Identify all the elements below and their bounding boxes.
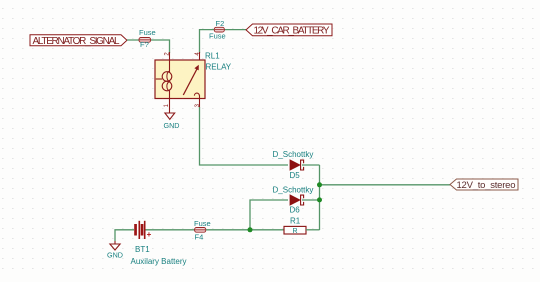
svg-text:D_Schottky: D_Schottky [273,185,314,194]
svg-text:D_Schottky: D_Schottky [273,150,314,159]
svg-text:F4: F4 [195,232,204,241]
wire alternator signal to fuse F? [127,40,170,53]
relay pin number 3 [195,103,201,107]
wire D5 cathode to output bus [302,164,320,166]
junction at output bus / D6 cathode [317,197,322,202]
svg-text:RELAY: RELAY [206,63,232,72]
wire ground to battery [115,230,134,241]
wire relay pin3 to D5 anode [200,107,289,165]
svg-text:Fuse: Fuse [209,32,226,41]
svg-text:GND: GND [107,251,123,260]
relay pin number 1 [164,103,170,107]
wire output bus vertical [319,165,321,230]
battery BT1 [131,221,187,266]
fuse F4 [194,219,211,241]
fuse F? [139,28,156,49]
global label 12V_to_stereo [450,179,518,191]
wire D6 branch from battery junction [250,200,288,230]
relay switch contact [183,65,199,98]
svg-text:Fuse: Fuse [139,28,156,37]
wire D6 cathode to output bus [302,199,320,201]
svg-text:+: + [147,230,152,239]
wire relay pin4 to 12V_CAR_BATTERY [200,30,247,53]
relay pin number 2 [164,52,170,56]
wire R1 to output bus [306,229,320,231]
svg-text:BT1: BT1 [135,245,150,254]
relay pin 3 stub [199,99,201,108]
wire to 12V_to_stereo [320,184,451,186]
pin 4 stub of relay [199,52,201,60]
junction at output bus / stereo wire [317,182,322,187]
diode D6 (Schottky) [273,185,314,214]
relay pin 1 stub to ground [169,99,171,114]
svg-text:D5: D5 [290,171,301,180]
pin 2 stub of relay [169,52,171,60]
relay reference RL1 [205,52,220,61]
global label 12V_CAR_BATTERY [246,24,332,37]
svg-text:R1: R1 [290,216,301,225]
junction at battery wire / D6 branch [248,227,253,232]
fuse F2 [209,19,226,41]
svg-text:Auxilary Battery: Auxilary Battery [131,257,187,266]
svg-text:ALTERNATOR_SIGNAL: ALTERNATOR_SIGNAL [33,36,120,47]
svg-text:F2: F2 [216,19,225,28]
svg-text:RL1: RL1 [205,52,220,61]
relay RL1 body [155,60,205,99]
global label ALTERNATOR_SIGNAL [30,35,127,47]
relay value RELAY [206,63,232,72]
svg-text:12V_CAR_BATTERY: 12V_CAR_BATTERY [254,26,330,37]
relay pin number 4 [195,52,201,56]
diode D5 (Schottky) [273,150,314,180]
svg-text:GND: GND [164,121,180,130]
wire fuse F4 to junction and R1 [206,229,284,231]
svg-text:R: R [293,228,298,235]
ground symbol (battery) [107,241,123,260]
svg-text:D6: D6 [290,206,301,215]
resistor R1 [284,216,306,235]
svg-text:F?: F? [140,40,149,49]
svg-text:12V_to_stereo: 12V_to_stereo [457,180,516,191]
svg-text:Fuse: Fuse [194,219,211,228]
relay coil [156,61,172,99]
ground symbol (relay) [164,113,180,130]
wire battery to fuse F4 [146,229,195,231]
